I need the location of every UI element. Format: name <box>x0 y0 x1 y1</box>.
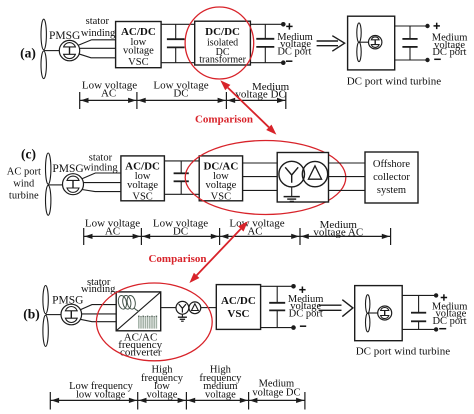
converter AC/DC low voltage VSC (c) <box>121 156 164 203</box>
transformer T1 secondary winding delta <box>302 161 327 186</box>
coil symbols inside converter <box>117 295 139 312</box>
dimension Low voltage AC (c3) <box>211 218 300 245</box>
medium voltage DC port label (a mid) <box>277 32 313 58</box>
dimension High frequency medium voltage (b3) <box>178 365 249 410</box>
wire phase 2 to collector <box>329 176 366 178</box>
converter AC/AC frequency converter box (b) <box>116 292 161 331</box>
node terminal dot - (a mid) <box>281 60 286 65</box>
wire DC link bottom (c) <box>164 193 199 195</box>
big open arrow (a) <box>317 36 345 52</box>
svg-text:AC/DC: AC/DC <box>221 295 256 307</box>
dimension Low voltage AC (a) <box>80 80 138 109</box>
shaft wire (a) <box>44 50 60 52</box>
wire top (b right) <box>402 294 436 296</box>
svg-text:(c): (c) <box>21 147 36 162</box>
wire top (b mid) <box>261 285 294 287</box>
wind turbine blades (b) <box>43 286 48 347</box>
svg-text:AC: AC <box>105 226 120 238</box>
transformer T2 secondary winding delta <box>189 302 201 314</box>
converter AC/DC low voltage VSC (a) <box>116 22 162 69</box>
svg-text:winding: winding <box>83 163 118 174</box>
stator winding label (b) <box>81 277 116 295</box>
wire phase 3 (c) <box>243 189 278 191</box>
node terminal dot + (a right) <box>425 24 429 28</box>
medium voltage DC port label (a right) <box>432 33 468 58</box>
red highlight circle (a) <box>185 7 254 79</box>
svg-text:voltage: voltage <box>123 45 154 56</box>
transformer T1 primary winding Y <box>279 161 305 187</box>
DC port wind turbine box (a) <box>348 16 395 70</box>
plus sign (b right) <box>441 294 447 300</box>
converter DC/AC low voltage VSC (c) <box>199 156 242 203</box>
wire DC link top (a) <box>161 23 195 25</box>
dimension Low frequency low voltage (b1) <box>50 381 137 410</box>
svg-text:DC port wind turbine: DC port wind turbine <box>356 346 451 358</box>
3-phase stator wires (a) <box>79 40 116 58</box>
minus sign (a right) <box>434 58 441 60</box>
svg-text:voltage: voltage <box>147 390 178 401</box>
converter AC/DC VSC (b) <box>216 285 260 330</box>
wire top (a right) <box>395 25 428 27</box>
stator winding label (a) <box>81 16 116 39</box>
wire phase 2 (c) <box>243 176 278 178</box>
PWM bar caps <box>139 316 157 318</box>
node terminal dot + (a mid) <box>281 22 286 27</box>
svg-text:Offshore: Offshore <box>373 159 410 170</box>
wire DC link bottom (a) <box>161 62 195 64</box>
wind turbine blades (c) <box>46 153 51 215</box>
capacitor C6 <box>411 295 426 329</box>
svg-text:transformer: transformer <box>199 54 246 65</box>
red highlight ellipse (b) <box>96 283 212 361</box>
node terminal dot - (b mid) <box>291 325 296 330</box>
ground (b) <box>178 314 187 321</box>
wire bottom (b mid) <box>261 327 294 329</box>
medium voltage DC port label (b right) <box>432 301 468 327</box>
offshore collector system box <box>365 152 418 203</box>
minus sign (a mid) <box>286 60 292 62</box>
svg-text:voltage: voltage <box>205 390 236 401</box>
wind turbine blades (a) <box>41 19 46 78</box>
wire transformer to VSC (b) <box>201 307 217 309</box>
svg-text:DC: DC <box>173 226 188 238</box>
plus sign (b mid) <box>299 287 305 293</box>
dimension Low voltage AC (c1) <box>84 218 142 245</box>
medium voltage DC port label (b mid) <box>288 294 324 320</box>
DC port wind turbine box (b) <box>355 286 403 341</box>
wire DC port top (a) <box>250 23 283 25</box>
svg-text:collector: collector <box>373 172 410 183</box>
wire DC port bottom (a) <box>250 62 283 64</box>
svg-text:DC port: DC port <box>432 316 466 327</box>
svg-text:voltage DC: voltage DC <box>235 88 285 100</box>
wire bottom (b right) <box>402 328 436 330</box>
dimension Low voltage DC (c2) <box>133 218 220 245</box>
generator PMSG (a) <box>59 40 79 60</box>
svg-text:DC port: DC port <box>432 47 466 58</box>
svg-text:low voltage: low voltage <box>76 390 126 401</box>
shaft wire (b) <box>46 314 61 316</box>
transformer T2 primary winding Y <box>176 301 189 314</box>
red highlight ellipse (c) <box>185 141 346 215</box>
plus sign (a right) <box>434 23 440 29</box>
svg-text:voltage: voltage <box>205 180 236 191</box>
svg-text:VSC: VSC <box>227 308 249 320</box>
wire phase 1 (c) <box>243 162 278 164</box>
node terminal dot - (b right) <box>434 327 438 331</box>
3-phase stator wires (b) <box>80 305 116 322</box>
svg-text:PMSG: PMSG <box>52 295 83 307</box>
svg-text:AC: AC <box>247 226 262 238</box>
capacitor C4 <box>174 161 189 194</box>
small shaft (b right) <box>368 312 378 314</box>
small turbine blades (a right) <box>357 23 361 62</box>
svg-text:turbine: turbine <box>9 190 39 201</box>
svg-text:voltage: voltage <box>127 180 158 191</box>
svg-text:winding: winding <box>81 28 116 39</box>
comparison arrow 1 <box>220 80 276 134</box>
dimension Medium voltage AC (c4) <box>291 219 390 245</box>
svg-text:PMSG: PMSG <box>49 30 80 42</box>
generator PMSG (c) <box>63 174 84 195</box>
dimension Low voltage DC (a) <box>128 80 226 109</box>
node terminal dot + (b right) <box>434 293 438 297</box>
capacitor C1 <box>167 24 185 62</box>
capacitor C3 <box>402 26 417 60</box>
svg-text:PMSG: PMSG <box>52 163 83 175</box>
dimension High frequency low voltage (b2) <box>129 365 187 410</box>
svg-text:DC: DC <box>173 87 188 99</box>
svg-text:(a): (a) <box>20 46 36 61</box>
plus sign (a mid) <box>286 23 292 29</box>
small generator (a right) <box>369 36 382 49</box>
generator PMSG (b) <box>61 304 82 325</box>
wire phase 1 to collector <box>329 162 366 164</box>
wire bottom (a right) <box>395 59 428 61</box>
svg-text:VSC: VSC <box>128 57 148 68</box>
svg-text:DC port: DC port <box>289 309 323 320</box>
wire phase 3 to collector <box>329 189 366 191</box>
node terminal dot - (a right) <box>425 58 429 62</box>
PWM bar symbols inside converter <box>139 318 157 329</box>
svg-text:wind: wind <box>13 178 35 189</box>
small turbine blades (b right) <box>366 295 370 332</box>
comparison arrow 2 <box>189 221 248 283</box>
caption AC/AC frequency converter <box>118 332 162 359</box>
svg-text:Comparison: Comparison <box>148 253 206 265</box>
capacitor C5 <box>269 286 285 327</box>
minus sign (b mid) <box>300 325 306 327</box>
svg-text:VSC: VSC <box>132 191 152 202</box>
svg-text:voltage AC: voltage AC <box>313 226 363 238</box>
converter DC/DC isolated DC transformer (a) <box>195 21 251 65</box>
3-phase stator wires (c) <box>82 173 121 192</box>
big open arrow (b) <box>319 300 353 317</box>
small generator (b right) <box>378 306 392 320</box>
minus sign (b right) <box>439 328 446 330</box>
svg-text:AC: AC <box>101 87 116 99</box>
small shaft (a right) <box>359 41 369 43</box>
svg-text:Comparison: Comparison <box>195 113 253 125</box>
svg-text:winding: winding <box>81 284 116 295</box>
capacitor C2 <box>256 24 274 62</box>
svg-text:stator: stator <box>86 16 110 27</box>
dimension Medium voltage DC (a) <box>218 81 290 109</box>
transformer T1 box <box>277 153 328 203</box>
svg-text:DC port: DC port <box>277 46 311 57</box>
svg-text:voltage DC: voltage DC <box>252 387 300 398</box>
wire converter to transformer (b) <box>161 307 176 309</box>
svg-text:AC port: AC port <box>7 166 41 177</box>
wire DC link top (c) <box>164 160 199 162</box>
stator winding label (c) <box>83 152 118 173</box>
svg-text:system: system <box>377 185 406 196</box>
svg-text:(b): (b) <box>23 307 40 322</box>
AC port wind turbine label (c) <box>7 166 41 201</box>
svg-text:DC port wind turbine: DC port wind turbine <box>347 75 442 87</box>
svg-text:VSC: VSC <box>211 191 231 202</box>
node terminal dot + (b mid) <box>291 284 296 289</box>
ground (c) <box>284 187 300 202</box>
shaft wire (c) <box>48 184 62 186</box>
dimension Medium voltage DC (b4) <box>240 379 305 410</box>
